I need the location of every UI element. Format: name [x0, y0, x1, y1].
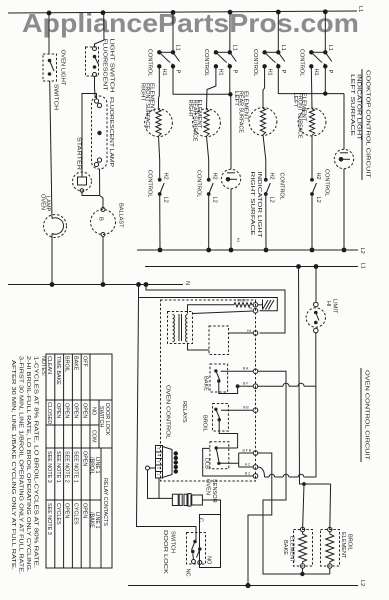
sensor connector blocks [172, 479, 217, 506]
wire element 4 to H2 contacts [311, 135, 313, 180]
svg-text:STARTER: STARTER [76, 137, 82, 170]
svg-text:CONTROL: CONTROL [252, 49, 258, 76]
heater broil element [321, 527, 353, 568]
svg-text:C: C [198, 518, 204, 522]
svg-text:HI: HI [325, 301, 331, 307]
ballast [91, 203, 124, 237]
svg-text:OPEN: OPEN [64, 403, 70, 418]
svg-text:/BROIL: /BROIL [89, 457, 95, 475]
wire H1 to element [158, 66, 161, 109]
svg-text:DOOR LOCK: DOOR LOCK [162, 530, 168, 574]
switch oven light switch [43, 50, 66, 111]
switch door lock [162, 515, 221, 577]
svg-text:2-HI BROIL-FULL RATE, LO BROIL: 2-HI BROIL-FULL RATE, LO BROIL OPERATING… [25, 356, 31, 572]
svg-text:SENSOR: SENSOR [211, 479, 217, 503]
wire element 2 to H2 contacts [207, 136, 209, 180]
wire to L2 rail [208, 194, 210, 250]
svg-text:A 2: A 2 [245, 463, 250, 467]
wire element to H2 contacts [159, 136, 160, 180]
wire fluorescent branch [95, 13, 105, 47]
wire N drop 2 to control [139, 285, 278, 311]
svg-text:N B: N B [243, 406, 249, 410]
wire H1 to element 4 [310, 66, 313, 109]
svg-text:H2: H2 [269, 173, 275, 180]
svg-text:BAKE: BAKE [282, 540, 288, 555]
wire broil exit to DLB [219, 420, 237, 448]
svg-text:CONTROL: CONTROL [147, 49, 153, 76]
svg-text:H1: H1 [161, 69, 167, 76]
wire L2 rail [137, 249, 358, 251]
svg-text:CLOSED: CLOSED [46, 402, 52, 424]
svg-text:5: 5 [156, 448, 160, 450]
wire P2 joins P1 [229, 66, 231, 94]
element right front surface element [140, 83, 173, 137]
svg-text:COM: COM [91, 430, 97, 443]
svg-text:OPEN: OPEN [81, 503, 87, 518]
wire module to pin H1 [229, 332, 254, 334]
wire ballast to N rail [102, 237, 104, 286]
svg-text:L1: L1 [175, 45, 181, 51]
wire element 3 to H2 contacts [263, 135, 266, 180]
wire starter bypass [82, 94, 97, 172]
lamp oven lamp [40, 194, 67, 238]
svg-text:CONTROL: CONTROL [196, 170, 202, 197]
control switch S1 [172, 12, 174, 52]
wire pin386 to hi-limit line with hops [258, 383, 316, 386]
connector P1 [156, 446, 179, 479]
svg-text:ELEMENT: ELEMENT [243, 91, 249, 121]
svg-text:NOTES:: NOTES: [40, 356, 46, 376]
svg-text:LIGHT SWITCH: LIGHT SWITCH [109, 39, 115, 93]
wire N drop 1 to control [146, 285, 285, 334]
svg-text:3-FIRST 30 MIN, LINE 1/BROIL O: 3-FIRST 30 MIN, LINE 1/BROIL OPERATING O… [18, 356, 24, 574]
svg-text:CLEAN: CLEAN [46, 356, 52, 374]
wire L1 lower rail [145, 266, 358, 268]
svg-text:RIGHT SURFACE: RIGHT SURFACE [249, 172, 255, 236]
svg-text:RELAY CONTACTS: RELAY CONTACTS [102, 478, 108, 526]
resistor VED [234, 299, 253, 307]
starter [73, 137, 92, 192]
wire P3 [278, 66, 344, 93]
lamp fluorescent lamp tube [92, 96, 115, 169]
svg-text:H2: H2 [212, 173, 218, 180]
svg-text:OPEN: OPEN [64, 503, 70, 518]
svg-text:SEE NOTE 3: SEE NOTE 3 [46, 451, 52, 483]
svg-text:OVEN CONTROL CIRCUIT: OVEN CONTROL CIRCUIT [364, 370, 370, 461]
svg-text:DLB: DLB [204, 458, 210, 469]
wire pin 477 to hi-limit bottom with hops [258, 467, 316, 477]
svg-text:ELEMENT: ELEMENT [196, 100, 202, 130]
svg-text:P: P [175, 70, 181, 74]
wire switch to oven lamp [50, 81, 52, 219]
svg-text:L2: L2 [163, 197, 169, 203]
svg-text:OVEN LIGHT: OVEN LIGHT [60, 50, 66, 87]
svg-text:FLUORESCENT: FLUORESCENT [102, 39, 108, 92]
svg-text:LEFT SURFACE: LEFT SURFACE [349, 74, 355, 136]
label oven control circuit [361, 368, 370, 462]
svg-text:BROIL: BROIL [347, 534, 353, 551]
svg-text:B A: B A [243, 367, 249, 371]
switch H2/L2 contacts branch2 [196, 170, 218, 203]
svg-text:H2: H2 [163, 173, 169, 180]
svg-text:OVEN CONTROL: OVEN CONTROL [165, 385, 171, 439]
svg-text:4: 4 [156, 454, 160, 456]
svg-text:SEE NOTE 1: SEE NOTE 1 [73, 451, 79, 483]
wire transformer to VED [188, 305, 235, 314]
wire to oven light switch [48, 13, 50, 54]
svg-text:FLUORESCENT LAMP: FLUORESCENT LAMP [108, 97, 114, 167]
svg-text:BAKE: BAKE [203, 376, 209, 391]
wire to L2 rail [265, 194, 267, 250]
pin H1 [253, 331, 258, 336]
svg-text:ELEMENT: ELEMENT [149, 83, 155, 113]
svg-text:L1: L1 [231, 45, 237, 51]
wire sensor to door lock box [202, 500, 220, 515]
svg-text:H1: H1 [236, 238, 240, 242]
wire P1 [173, 66, 230, 94]
svg-text:L2: L2 [269, 197, 275, 203]
svg-text:L1: L1 [357, 6, 363, 12]
svg-text:ELEMENT: ELEMENT [301, 93, 307, 123]
svg-text:SWITCH: SWITCH [98, 406, 104, 427]
svg-text:L2: L2 [315, 197, 321, 203]
relay BROIL [202, 404, 229, 432]
wire N rail [8, 284, 183, 286]
wire to L2 rail [159, 194, 161, 250]
svg-text:SWITCH: SWITCH [53, 84, 59, 110]
wire L1 to hi limit [315, 267, 317, 303]
svg-text:L1: L1 [360, 263, 366, 269]
lamp right surface indicator light [221, 169, 262, 238]
wire pin 453 to L2 [248, 453, 272, 586]
svg-text:OFF: OFF [81, 356, 87, 367]
svg-text:L1: L1 [280, 45, 286, 51]
wire bake relay return down [258, 371, 330, 574]
svg-text:N: N [184, 281, 190, 285]
svg-text:CONTROL: CONTROL [147, 170, 153, 197]
wire switch to fluorescent lamp [94, 77, 97, 99]
wire bake relay to pin [221, 370, 254, 372]
svg-text:CONTROL: CONTROL [324, 169, 330, 196]
svg-text:BROIL: BROIL [64, 356, 70, 372]
svg-text:L2: L2 [212, 197, 218, 203]
lamp left surface indicator light [334, 74, 361, 169]
transformer T1 [168, 312, 193, 344]
notes table [10, 354, 112, 574]
svg-text:OPEN: OPEN [73, 403, 79, 418]
wire indicator 1 to L2 [230, 189, 232, 250]
wire hi limit return [315, 333, 317, 477]
svg-text:CONTROL: CONTROL [203, 49, 209, 76]
wire transformer secondary to module [188, 344, 210, 351]
oven control box [161, 300, 256, 481]
svg-text:/BAKE: /BAKE [89, 512, 95, 528]
svg-text:CYCLES: CYCLES [55, 503, 61, 525]
svg-text:COOKTOP CONTROL CIRCUIT: COOKTOP CONTROL CIRCUIT [365, 70, 371, 179]
svg-text:H1: H1 [313, 69, 319, 76]
svg-text:LIMIT: LIMIT [332, 299, 338, 314]
svg-text:L2: L2 [359, 580, 365, 586]
svg-text:L2: L2 [359, 248, 365, 254]
svg-text:2: 2 [156, 467, 160, 469]
wire indicator feed right [230, 94, 232, 169]
svg-text:L1: L1 [327, 45, 333, 51]
svg-text:SEE NOTE 1: SEE NOTE 1 [55, 451, 61, 483]
switch fluorescent light switch [86, 39, 115, 93]
svg-text:SEE NOTE 2: SEE NOTE 2 [64, 451, 70, 483]
svg-text:CYCLES: CYCLES [73, 503, 79, 525]
wire door lock feed [137, 298, 197, 534]
svg-text:BALLAST: BALLAST [118, 203, 124, 228]
svg-text:INDICATOR LIGHT: INDICATOR LIGHT [356, 74, 362, 141]
wire to L2 rail [311, 194, 313, 250]
wire starter return [82, 193, 100, 196]
junction dots on L1 rail [47, 11, 52, 16]
svg-text:H1: H1 [266, 69, 272, 76]
wire DLB solid enclosure [203, 448, 254, 476]
svg-text:3: 3 [156, 461, 160, 463]
svg-text:ELEMENT: ELEMENT [340, 532, 346, 559]
svg-text:LAMP: LAMP [45, 196, 51, 212]
wire lamp to ballast [100, 169, 104, 209]
svg-text:SWITCH: SWITCH [170, 531, 176, 553]
svg-text:OPEN: OPEN [81, 403, 87, 418]
svg-text:NC: NC [185, 569, 191, 577]
heater bake element [282, 527, 313, 568]
element left rear surface element [233, 91, 277, 135]
wire connector feed [146, 466, 150, 470]
thermostat HI LIMIT [306, 299, 337, 333]
svg-text:RELAYS: RELAYS [181, 401, 187, 423]
svg-text:OPEN: OPEN [55, 403, 61, 418]
svg-text:NO: NO [91, 407, 97, 415]
svg-text:ELEMENT: ELEMENT [289, 536, 295, 563]
svg-text:H1: H1 [218, 69, 224, 76]
svg-text:B: B [98, 217, 104, 221]
wire L2 bottom rail [128, 585, 358, 587]
switch H2/L2 contacts branch1 [147, 170, 169, 203]
svg-text:OPEN: OPEN [81, 451, 87, 466]
ground symbol [258, 300, 274, 310]
svg-text:INDICATOR LIGHT: INDICATOR LIGHT [256, 172, 262, 239]
svg-text:OVEN: OVEN [205, 479, 211, 495]
sub-module box [209, 326, 229, 355]
svg-text:H1: H1 [247, 329, 251, 333]
relay DLB [204, 442, 238, 469]
svg-text:TIME BAKE: TIME BAKE [55, 356, 61, 385]
switch H2/L2 contacts branch4 [310, 169, 329, 203]
svg-text:B F: B F [243, 382, 248, 386]
svg-text:P: P [280, 70, 286, 74]
svg-text:1-CYCLES AT 8% RATE, LO BROIL-: 1-CYCLES AT 8% RATE, LO BROIL-CYCLES AT … [33, 356, 39, 568]
svg-text:NO: NO [206, 556, 212, 565]
wire indicator feed left [343, 94, 345, 150]
wire L1 top rail [8, 11, 357, 13]
wire oven lamp to N rail [51, 234, 53, 286]
pin N [253, 309, 258, 314]
svg-text:BAKE: BAKE [73, 356, 79, 371]
svg-text:P: P [231, 70, 237, 74]
svg-text:AFTER 30 MIN, LINE 1/BAKE CYCL: AFTER 30 MIN, LINE 1/BAKE CYCLING ONLY A… [10, 360, 16, 570]
svg-text:SEE NOTE 3: SEE NOTE 3 [46, 503, 52, 535]
element left front surface element [292, 93, 326, 139]
wire indicator 2 to L2 [343, 169, 345, 250]
svg-text:1: 1 [156, 474, 160, 476]
wire L1 drop to element tops [299, 267, 331, 485]
svg-text:CONTROL: CONTROL [299, 49, 305, 76]
relay BAKE [203, 364, 228, 392]
svg-text:BROIL: BROIL [202, 415, 208, 432]
svg-text:P: P [327, 70, 333, 74]
switch H2/L2 contacts branch3 [264, 173, 285, 203]
svg-text:B F B: B F B [243, 449, 252, 453]
label cooktop control circuit [362, 69, 371, 180]
wire H1 to element 3 [263, 66, 265, 108]
svg-text:CONTROL: CONTROL [279, 173, 285, 200]
pin ground [253, 303, 258, 308]
svg-text:V E D: V E D [237, 299, 246, 303]
element right rear surface element [187, 100, 220, 142]
svg-text:B 2: B 2 [245, 472, 250, 476]
svg-text:H2: H2 [315, 173, 321, 180]
wire P4 joins P3 [324, 66, 326, 93]
wire H1 to element 2 [207, 66, 216, 109]
wire DLB contact to pins [219, 462, 239, 464]
